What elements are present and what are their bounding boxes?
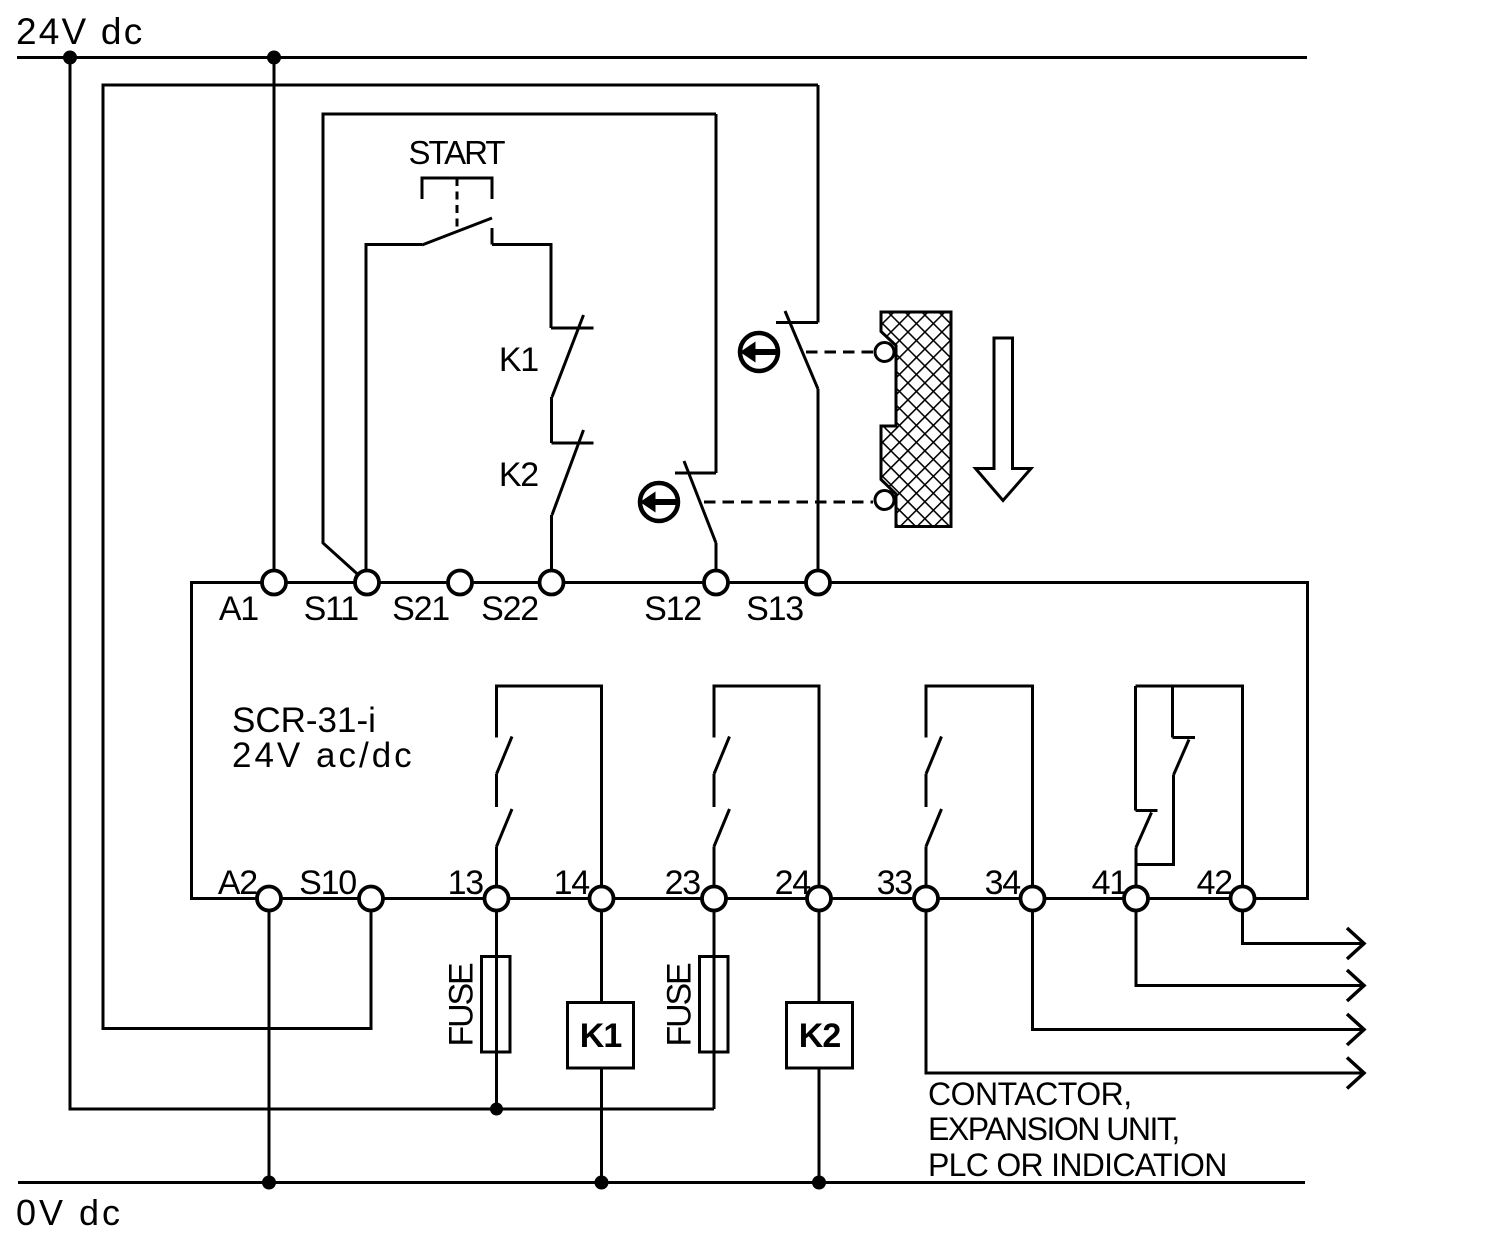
contact K1 blade bbox=[552, 315, 584, 397]
wire S13 branch top lead bbox=[817, 85, 820, 323]
safety switch B1 blade bbox=[785, 311, 818, 389]
actuator symbol B1 circle bbox=[740, 333, 778, 371]
svg-text:34: 34 bbox=[985, 864, 1021, 902]
terminal S13 bbox=[806, 571, 830, 595]
wire 0V dc bus bbox=[18, 1181, 1305, 1184]
wire terminal 13 through fuse F1 to lower rail bbox=[495, 911, 498, 1109]
svg-text:SCR-31-i: SCR-31-i bbox=[232, 701, 376, 740]
wire contact to terminal 13 bbox=[495, 847, 498, 887]
svg-text:K1: K1 bbox=[499, 341, 538, 379]
wire terminal 23 through fuse F2 bbox=[713, 911, 716, 1052]
coil K2 box bbox=[787, 1003, 853, 1069]
wire B2 to terminal S12 bbox=[715, 543, 718, 572]
terminal 41 bbox=[1124, 887, 1148, 911]
mechanical link B1 dashed bbox=[806, 351, 873, 354]
output contact 41-42 (NC) bracket bbox=[1136, 686, 1243, 887]
contact 41-42 blade 2 bbox=[1136, 813, 1152, 848]
safety switch B1 fixed bar bbox=[776, 321, 818, 324]
svg-text:FUSE: FUSE bbox=[443, 963, 481, 1046]
svg-text:S10: S10 bbox=[299, 864, 356, 902]
svg-text:K2: K2 bbox=[799, 1017, 841, 1055]
wire S10 loop: top horizontal y=85 bbox=[103, 85, 818, 1029]
output contact 13-14 bracket bbox=[497, 686, 602, 887]
wire output 33 arrow bbox=[926, 911, 1362, 1073]
contact 13-14 blade 2 bbox=[497, 809, 513, 847]
wire B1 to terminal S13 bbox=[817, 389, 820, 572]
svg-text:S13: S13 bbox=[746, 590, 803, 628]
terminal S12 bbox=[704, 571, 728, 595]
pushbutton START actuator bracket bbox=[422, 178, 492, 199]
svg-text:24: 24 bbox=[775, 864, 811, 902]
wire output 41 arrow bbox=[1136, 911, 1362, 986]
svg-text:K2: K2 bbox=[499, 456, 538, 494]
fuse F1 body bbox=[482, 957, 511, 1053]
contact 41-42 lower stem bbox=[1136, 775, 1174, 865]
wire terminal 24 to coil K2 bbox=[818, 911, 821, 1003]
contact K1 (NC aux) fixed bar bbox=[551, 327, 594, 330]
pushbutton START fixed contact tick bbox=[491, 228, 494, 245]
contact 41-42 lower tick bbox=[1136, 809, 1158, 812]
output contact 33-34 bracket bbox=[926, 686, 1033, 887]
mechanical link B2 dashed bbox=[704, 501, 873, 504]
wire riser to fuse F2 bottom bbox=[713, 1052, 716, 1109]
svg-text:14: 14 bbox=[554, 864, 590, 902]
terminal 13 bbox=[485, 887, 509, 911]
svg-text:S12: S12 bbox=[644, 590, 701, 628]
wire left drop from 24V bus to lower rail bbox=[70, 58, 714, 1110]
wire START button left lead bbox=[366, 245, 422, 573]
terminal 33 bbox=[914, 887, 938, 911]
wire START to K1 contact bbox=[492, 245, 551, 329]
svg-text:0V dc: 0V dc bbox=[16, 1192, 123, 1233]
terminal 24 bbox=[807, 887, 831, 911]
terminal 34 bbox=[1021, 887, 1045, 911]
svg-text:41: 41 bbox=[1092, 864, 1128, 902]
safety switch B2 blade bbox=[684, 461, 716, 543]
wire 24V dc bus bbox=[17, 56, 1307, 59]
terminal 23 bbox=[702, 887, 726, 911]
contact 33-34 mid lead bbox=[925, 774, 928, 807]
coil K1 box bbox=[568, 1003, 634, 1069]
svg-text:CONTACTOR,: CONTACTOR, bbox=[928, 1076, 1132, 1112]
wire contact to terminal 33 bbox=[925, 847, 928, 887]
wire contact to terminal 23 bbox=[713, 847, 716, 887]
contact 13-14 blade 1 bbox=[497, 737, 513, 775]
contact 23-24 blade 1 bbox=[714, 737, 730, 775]
terminal S22 bbox=[540, 571, 564, 595]
wire K1 to K2 contact bbox=[550, 397, 553, 443]
arrowhead 41 bbox=[1347, 970, 1364, 1001]
svg-text:PLC OR INDICATION: PLC OR INDICATION bbox=[928, 1147, 1227, 1183]
contact 41-42 mid stem bbox=[1171, 686, 1174, 738]
cam roller upper bbox=[875, 343, 894, 362]
safety switch B2 fixed bar bbox=[675, 472, 716, 475]
wire coil K1 to 0V bus bbox=[600, 1068, 603, 1183]
contact 41-42 upper tick bbox=[1173, 736, 1196, 739]
wire terminal A2 to 0V bus bbox=[268, 911, 271, 1183]
wire output 42 arrow bbox=[1243, 911, 1362, 944]
svg-text:24V ac/dc: 24V ac/dc bbox=[232, 736, 415, 775]
svg-text:A1: A1 bbox=[219, 590, 258, 628]
svg-text:A2: A2 bbox=[218, 864, 257, 902]
actuator symbol B2 arrow bbox=[640, 492, 678, 513]
contact 41-42 blade 1 bbox=[1174, 740, 1190, 776]
wire from 24V bus down to terminal A1 bbox=[273, 58, 276, 573]
arrowhead 33 bbox=[1347, 1058, 1364, 1089]
svg-text:13: 13 bbox=[448, 864, 484, 902]
wire output 34 arrow bbox=[1033, 911, 1362, 1030]
svg-text:EXPANSION UNIT,: EXPANSION UNIT, bbox=[928, 1111, 1179, 1147]
terminal S10 bbox=[359, 887, 383, 911]
contact 23-24 blade 2 bbox=[714, 809, 730, 847]
wire S11 loop: top horizontal y=114 bbox=[323, 114, 716, 580]
terminal 14 bbox=[590, 887, 614, 911]
actuator symbol B2 circle bbox=[640, 483, 678, 521]
svg-text:K1: K1 bbox=[580, 1017, 622, 1055]
contact 33-34 blade 1 bbox=[926, 737, 942, 775]
svg-text:24V dc: 24V dc bbox=[16, 11, 144, 52]
svg-text:S21: S21 bbox=[392, 590, 449, 628]
contact 33-34 blade 2 bbox=[926, 809, 942, 847]
svg-text:S11: S11 bbox=[304, 590, 359, 628]
terminal A1 bbox=[262, 571, 286, 595]
junction K2 on 0V bus bbox=[812, 1176, 826, 1190]
terminal A2 bbox=[257, 887, 281, 911]
contact K2 (NC aux) fixed bar bbox=[552, 442, 594, 445]
actuator symbol B1 arrow bbox=[740, 342, 778, 363]
terminal S21 bbox=[448, 571, 472, 595]
terminal 42 bbox=[1231, 887, 1255, 911]
arrowhead 34 bbox=[1347, 1014, 1364, 1045]
svg-text:START: START bbox=[408, 134, 505, 171]
output contact 23-24 bracket bbox=[714, 686, 819, 887]
svg-text:23: 23 bbox=[665, 864, 701, 902]
svg-text:42: 42 bbox=[1197, 864, 1233, 902]
svg-text:FUSE: FUSE bbox=[661, 963, 699, 1046]
fuse F2 body bbox=[700, 957, 729, 1053]
junction A2 on 0V bus bbox=[262, 1176, 276, 1190]
junction on 24V bus at x=70 bbox=[63, 51, 77, 65]
svg-text:33: 33 bbox=[877, 864, 913, 902]
arrowhead 42 bbox=[1347, 928, 1364, 959]
junction fuse F1 branch on lower rail bbox=[490, 1103, 503, 1116]
wire contact to terminal 41 bbox=[1135, 848, 1138, 887]
cam / guard actuator hatched block bbox=[881, 312, 951, 527]
wire terminal 14 to coil K1 bbox=[600, 911, 603, 1003]
contact 41-42 left lead bbox=[1134, 686, 1137, 811]
contact 13-14 mid lead bbox=[495, 774, 498, 807]
cam roller lower bbox=[875, 491, 894, 510]
junction on 24V bus at x=274 bbox=[267, 51, 281, 65]
terminal S11 bbox=[355, 571, 379, 595]
wire coil K2 to 0V bus bbox=[818, 1068, 821, 1183]
pushbutton START contact blade bbox=[422, 218, 492, 245]
wire S12 branch top lead bbox=[715, 114, 718, 473]
contact K2 blade bbox=[552, 430, 584, 515]
guard movement arrow (down) bbox=[976, 338, 1032, 501]
svg-text:S22: S22 bbox=[481, 590, 538, 628]
junction K1 on 0V bus bbox=[595, 1176, 609, 1190]
relay box SCR-31-i outline bbox=[192, 583, 1308, 899]
contact 23-24 mid lead bbox=[713, 774, 716, 807]
wire K2 contact to terminal S22 bbox=[550, 515, 553, 572]
pushbutton START dashed stem bbox=[456, 178, 459, 232]
